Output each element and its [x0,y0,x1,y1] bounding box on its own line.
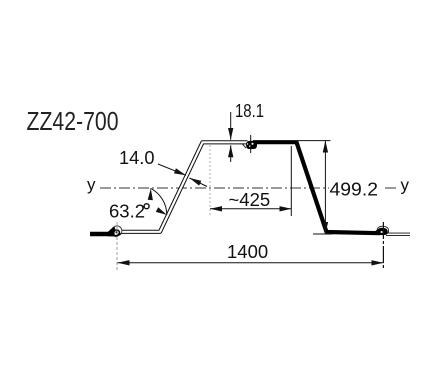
dimension 1400 line [118,262,384,264]
centre line through bottom-right interlock [382,222,384,270]
wire thin adjacent pile Z outline [121,142,248,232]
svg-text:y: y [401,176,410,195]
wire thin right tail [386,233,410,236]
centre tick through top interlock [250,135,252,153]
centre line through bottom-left interlock [116,222,118,271]
dimension 499.2 label [329,181,383,196]
dimension ~425 extension lines [209,145,211,216]
interlock ball top [242,141,257,149]
dimension 499.2 line [324,141,326,234]
interlock ball bottom-right [375,226,389,235]
svg-text:ZZ42-700: ZZ42-700 [27,106,119,136]
interlock ball bottom-left [108,226,122,237]
svg-text:499.2: 499.2 [330,179,379,200]
svg-text:14.0: 14.0 [119,147,155,168]
dimension 499.2 extension lines [297,140,331,142]
thick left stub flange [90,232,114,236]
svg-text:1400: 1400 [227,241,268,262]
dimension 18.1 arrows [230,112,232,140]
dimension 14.0 leader arrows [158,164,186,175]
thick single pile Z profile [253,142,380,233]
dimension ~425 line [210,208,291,210]
svg-text:18.1: 18.1 [235,100,264,121]
svg-text:y: y [87,175,96,194]
svg-text:63.2: 63.2 [109,201,145,222]
dimension 63.2 angle arc [151,188,167,215]
svg-text:~425: ~425 [229,189,271,210]
centerline y-y [100,187,398,189]
